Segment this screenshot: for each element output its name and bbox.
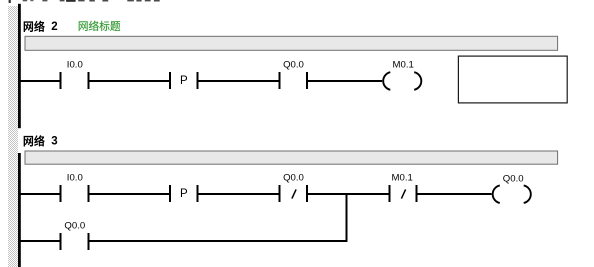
svg-text:M0.1: M0.1 — [392, 173, 413, 184]
svg-text:3: 3 — [51, 135, 57, 147]
svg-text:2: 2 — [51, 21, 57, 33]
svg-text:P: P — [180, 75, 188, 87]
svg-text:Q0.0: Q0.0 — [503, 173, 524, 184]
svg-text:Q0.0: Q0.0 — [64, 221, 85, 232]
svg-text:P: P — [180, 188, 188, 200]
svg-text:Q0.0: Q0.0 — [283, 173, 304, 184]
svg-text:Q0.0: Q0.0 — [283, 59, 304, 70]
svg-text:I0.0: I0.0 — [67, 173, 83, 184]
svg-text:M0.1: M0.1 — [393, 59, 414, 70]
svg-text:I0.0: I0.0 — [67, 59, 83, 70]
